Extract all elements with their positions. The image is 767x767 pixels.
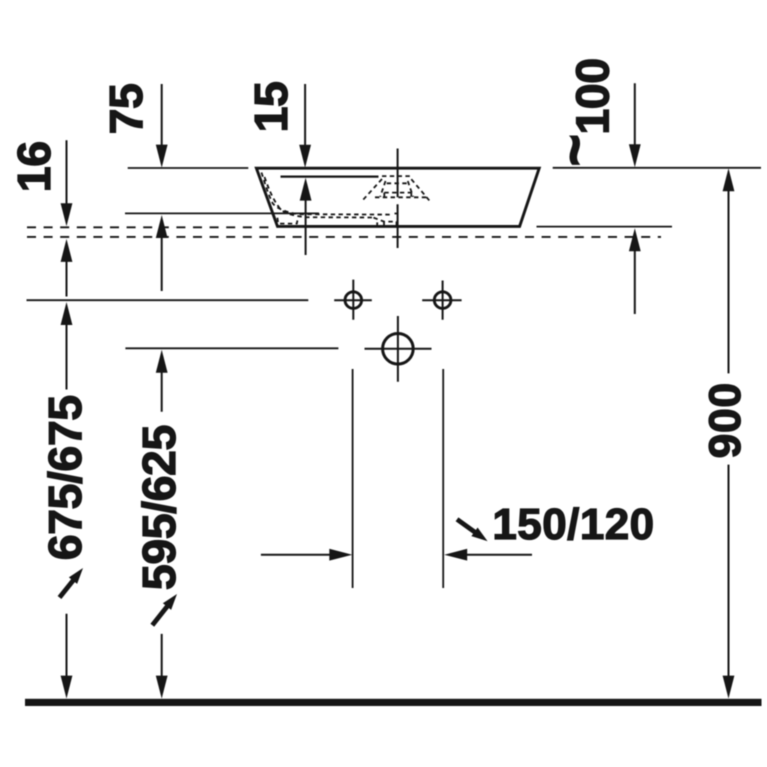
svg-text:100: 100: [567, 58, 619, 134]
svg-text:~: ~: [545, 135, 605, 166]
svg-text:75: 75: [100, 84, 152, 135]
svg-text:675/675: 675/675: [39, 395, 91, 560]
svg-text:15: 15: [245, 82, 297, 133]
svg-text:16: 16: [8, 141, 60, 192]
svg-text:150/120: 150/120: [492, 500, 654, 549]
svg-text:900: 900: [701, 382, 750, 458]
svg-text:595/625: 595/625: [133, 425, 185, 590]
